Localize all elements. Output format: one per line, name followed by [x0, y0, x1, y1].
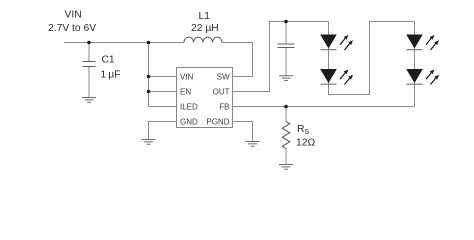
LED D3 [406, 35, 439, 51]
svg-text:SW: SW [217, 72, 230, 81]
node VIN C1 junction [87, 41, 91, 45]
wire supply bus to VIN/EN/ILED pins [149, 43, 177, 107]
resistor RS [282, 107, 290, 165]
node bus EN pin junction [147, 90, 151, 94]
ground C2 [279, 76, 293, 81]
LED D2 [320, 69, 353, 85]
node feedback rail RS junction [284, 105, 288, 109]
ground C1 [82, 98, 96, 103]
wire L1 output to SW pin [222, 43, 253, 77]
svg-text:VIN: VIN [65, 10, 82, 21]
svg-text:GND: GND [180, 117, 198, 126]
wire LED string 2 down to feedback rail [414, 22, 416, 107]
node supply bus top junction [147, 41, 151, 45]
wire PGND pin to ground [233, 122, 253, 142]
svg-text:ILED: ILED [180, 102, 198, 111]
svg-text:EN: EN [180, 87, 191, 96]
wire GND pin to ground [149, 122, 177, 140]
svg-text:OUT: OUT [213, 87, 230, 96]
IC U1 boost LED driver [177, 68, 233, 128]
capacitor C1 [83, 43, 96, 98]
wire feedback rail to FB pin [233, 106, 415, 108]
svg-text:2.7V to 6V: 2.7V to 6V [48, 23, 96, 34]
wire VIN input rail [64, 42, 184, 44]
svg-text:1 µF: 1 µF [101, 70, 121, 81]
ground GND pin [142, 140, 156, 145]
capacitor C2 output [278, 22, 295, 77]
ground PGND pin [246, 142, 260, 147]
svg-text:VIN: VIN [180, 72, 194, 81]
svg-text:22 µH: 22 µH [191, 23, 219, 34]
svg-text:L1: L1 [199, 11, 211, 22]
node output rail C2 junction [284, 20, 288, 24]
svg-text:PGND: PGND [206, 117, 229, 126]
LED D1 [320, 35, 353, 51]
svg-text:FB: FB [219, 102, 229, 111]
inductor L1 [184, 37, 222, 42]
svg-text:12Ω: 12Ω [296, 138, 315, 149]
ground RS [279, 165, 293, 170]
LED D4 [406, 69, 439, 85]
node bus VIN pin junction [147, 75, 151, 79]
wire OUT pin to output rail [233, 22, 329, 92]
svg-text:C1: C1 [102, 55, 115, 66]
wire LED string 1 and crossover to string 2 [329, 22, 415, 95]
